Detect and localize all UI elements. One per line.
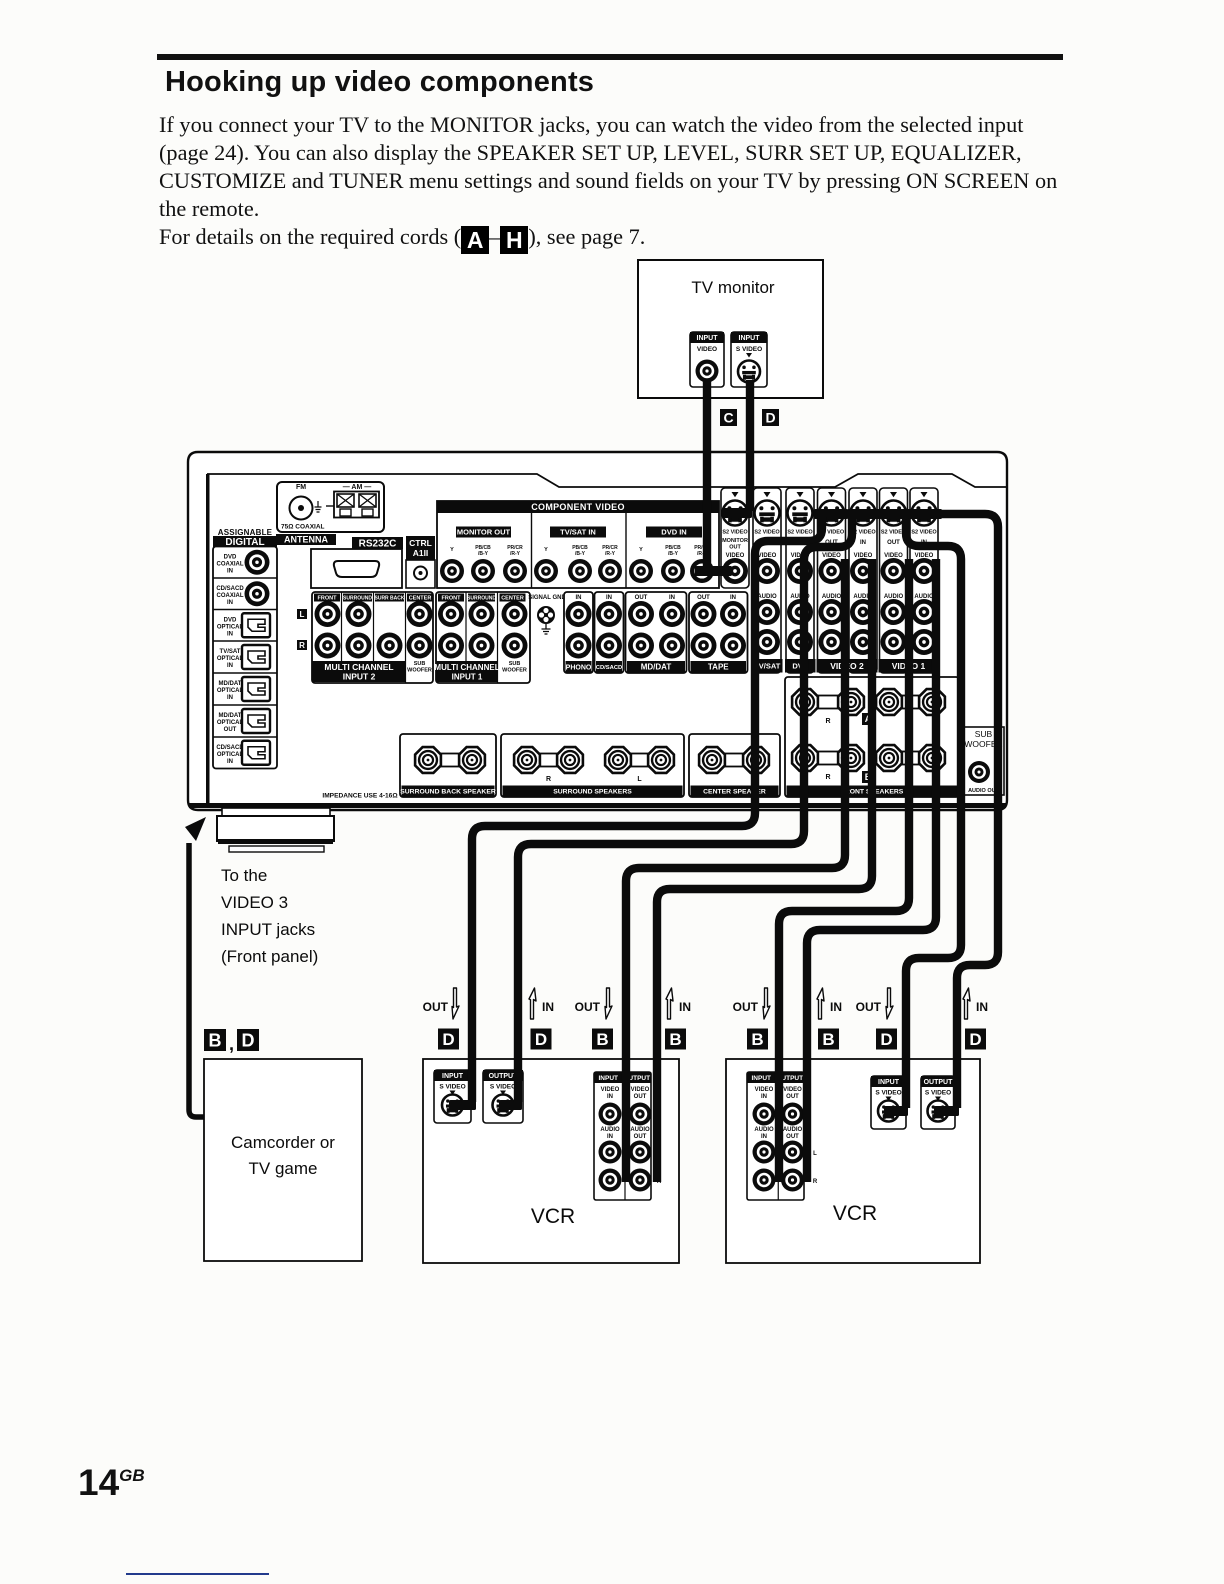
svg-text:CTRL: CTRL: [409, 538, 432, 548]
cable B: VCR1 output to VIDEO 2 audio/video in: [657, 559, 872, 1182]
SURROUND BACK SPEAKER terminals: [400, 734, 496, 797]
label VIDEO 2 strip bar: [817, 659, 878, 673]
svg-text:OPTICAL: OPTICAL: [217, 752, 244, 758]
video strip 2 S2-VIDEO/VIDEO IN: [753, 488, 781, 673]
svg-text:B: B: [209, 1030, 222, 1050]
digital input column box: [213, 547, 277, 769]
svg-text:MD/DAT: MD/DAT: [219, 713, 242, 719]
svg-text:IN: IN: [976, 1000, 988, 1014]
label B square 3: [592, 1029, 613, 1050]
svg-text:OUT: OUT: [635, 595, 648, 601]
cable B: VIDEO 1 audio/video out to VCR2 input: [779, 559, 909, 1182]
svg-text:R: R: [825, 774, 830, 781]
svg-text:S2 VIDEO: S2 VIDEO: [787, 530, 813, 536]
receiver inner left fold line: [206, 474, 210, 804]
label L square: [297, 609, 307, 619]
svg-text:OUTPUT: OUTPUT: [489, 1073, 519, 1080]
label D square 8: [965, 1029, 986, 1050]
svg-text:L: L: [813, 1151, 817, 1157]
svg-text:B: B: [751, 1030, 763, 1049]
svg-text:S VIDEO: S VIDEO: [736, 346, 762, 353]
receiver rear panel chassis: [188, 452, 1007, 810]
svg-text:COAXIAL: COAXIAL: [217, 561, 244, 567]
svg-text:CD/SACD: CD/SACD: [216, 745, 244, 751]
svg-text:A1II: A1II: [413, 548, 429, 558]
mci1 L row jacks: [438, 601, 464, 627]
svg-text:OUT: OUT: [786, 1094, 799, 1100]
VCR1 S VIDEO INPUT module: [434, 1070, 471, 1123]
multi channel input 2 box: [312, 592, 433, 683]
svg-text:Camcorder or: Camcorder or: [231, 1133, 335, 1152]
cable D: VCR1 s-video output to S2 VIDEO 2 in: [499, 1100, 522, 1110]
jack TV/SAT OPTICAL IN: [213, 640, 277, 642]
svg-text:TV/SAT: TV/SAT: [220, 649, 241, 655]
footer blue line: [126, 1573, 269, 1576]
MD/DAT jacks box: [626, 592, 687, 673]
svg-text:WOOFER: WOOFER: [407, 668, 432, 674]
label R square: [297, 640, 307, 650]
svg-text:IN: IN: [227, 631, 233, 637]
svg-text:INPUT 2: INPUT 2: [343, 672, 376, 682]
antenna box: [277, 482, 384, 532]
svg-text:DVD: DVD: [224, 554, 237, 560]
svg-text:AUDIO: AUDIO: [783, 1127, 803, 1133]
svg-text:D: D: [765, 410, 775, 426]
svg-text:FM: FM: [296, 484, 306, 491]
svg-text:OUT: OUT: [733, 1000, 759, 1014]
svg-text:IN: IN: [679, 1000, 691, 1014]
svg-text:OUT: OUT: [786, 1134, 799, 1140]
mci2 R row jacks: [315, 633, 341, 659]
svg-text:D: D: [880, 1030, 892, 1049]
svg-text:D: D: [969, 1030, 981, 1049]
svg-text:WOOFER: WOOFER: [502, 668, 527, 674]
svg-text:MONITOR: MONITOR: [722, 538, 748, 544]
video strip 7 S2-VIDEO/VIDEO IN: [910, 488, 938, 673]
label D square 1: [438, 1029, 459, 1050]
svg-text:B: B: [669, 1030, 681, 1049]
svg-text:IN: IN: [542, 1000, 554, 1014]
svg-text:RS232C: RS232C: [359, 539, 397, 550]
svg-text:OPTICAL: OPTICAL: [217, 688, 244, 694]
component video box: [437, 501, 719, 588]
svg-text:R: R: [813, 1179, 818, 1185]
label B square 5: [747, 1029, 768, 1050]
VCR 2 box: [726, 1059, 980, 1263]
svg-text:IN: IN: [761, 1134, 767, 1140]
label ANTENNA bar: [276, 534, 336, 545]
svg-text:VIDEO: VIDEO: [631, 1087, 650, 1093]
label B square 6: [818, 1029, 839, 1050]
label DIGITAL bar: [213, 536, 277, 547]
svg-text:/R-Y: /R-Y: [510, 551, 521, 557]
svg-text:MULTI CHANNEL: MULTI CHANNEL: [324, 662, 393, 672]
svg-text:S VIDEO: S VIDEO: [439, 1084, 465, 1091]
svg-text:FRONT: FRONT: [442, 595, 462, 601]
svg-text:OUT: OUT: [634, 1134, 647, 1140]
svg-text:IN: IN: [227, 759, 233, 765]
svg-text:AUDIO: AUDIO: [600, 1127, 620, 1133]
svg-text:S VIDEO: S VIDEO: [490, 1084, 516, 1091]
svg-text:(Front panel): (Front panel): [221, 947, 318, 966]
label COMPONENT VIDEO bar: [437, 501, 719, 513]
svg-text:CENTER: CENTER: [409, 595, 432, 601]
svg-text:D: D: [442, 1030, 454, 1049]
svg-text:IMPEDANCE USE 4-16Ω: IMPEDANCE USE 4-16Ω: [322, 793, 398, 800]
AM antenna terminals: [334, 492, 379, 518]
svg-text:SURROUND: SURROUND: [343, 595, 372, 601]
svg-text:VCR: VCR: [531, 1205, 575, 1228]
mci2 L row jacks: [315, 601, 341, 627]
svg-text:B: B: [822, 1030, 834, 1049]
svg-text:VIDEO 3: VIDEO 3: [221, 893, 288, 912]
svg-text:S VIDEO: S VIDEO: [875, 1090, 901, 1097]
svg-text:IN: IN: [227, 663, 233, 669]
svg-text:VIDEO: VIDEO: [697, 346, 717, 353]
svg-text:/B-Y: /B-Y: [478, 551, 489, 557]
svg-text:OUT: OUT: [575, 1000, 601, 1014]
TAPE jacks box: [689, 592, 748, 673]
svg-text:Y: Y: [544, 547, 548, 553]
VCR2 S VIDEO INPUT module: [871, 1076, 906, 1129]
label MULTI CHANNEL INPUT 2: [312, 661, 406, 682]
VCR1 VIDEO/AUDIO jack panel: [594, 1072, 651, 1200]
jack MD/DAT OPTICAL IN: [213, 672, 277, 674]
TV S VIDEO INPUT jack module: [731, 332, 767, 387]
label MULTI CHANNEL INPUT 1: [436, 661, 498, 682]
video strip 5 S2-VIDEO/VIDEO IN: [849, 488, 877, 673]
svg-text:IN: IN: [860, 540, 866, 546]
label D square 7: [876, 1029, 897, 1050]
label TV/SAT strip bar: [752, 659, 783, 673]
svg-text:INPUT: INPUT: [878, 1079, 900, 1086]
SURROUND SPEAKERS terminals: [501, 734, 684, 797]
svg-text:SURR BACK: SURR BACK: [375, 595, 405, 601]
svg-text:TAPE: TAPE: [708, 663, 729, 672]
svg-text:CENTER: CENTER: [501, 595, 524, 601]
multi channel input 1 box: [436, 592, 530, 683]
mci2 column headers: [314, 594, 340, 602]
cable B: VIDEO 2 audio/video out to VCR1 input: [626, 559, 845, 1182]
video strip 3 S2-VIDEO/VIDEO IN: [786, 488, 814, 673]
svg-text:D: D: [242, 1030, 255, 1050]
FRONT SPEAKERS terminals: [785, 677, 959, 797]
cable D: S2 VIDEO 2 out to VCR1 s-video input: [814, 509, 848, 519]
svg-text:OUTPUT: OUTPUT: [924, 1079, 954, 1086]
svg-text:IN: IN: [576, 595, 582, 601]
mci2 dividers: [341, 592, 343, 661]
svg-text:SURROUND: SURROUND: [467, 595, 496, 601]
mci1 dividers: [465, 592, 467, 661]
svg-text:PHONO: PHONO: [566, 664, 592, 671]
label RS232C bar: [352, 537, 403, 549]
antenna ground symbol: [315, 501, 322, 512]
svg-text:S2 VIDEO: S2 VIDEO: [911, 530, 937, 536]
VCR 1 box: [423, 1059, 679, 1263]
svg-text:Y: Y: [450, 547, 454, 553]
label VIDEO 1 strip bar: [879, 659, 939, 673]
cable D: VCR2 s-video output to S2 VIDEO 1 in: [908, 509, 942, 519]
svg-text:INPUT 1: INPUT 1: [452, 673, 483, 682]
label CTRL A1II bar: [406, 536, 435, 560]
svg-text:OUT: OUT: [729, 545, 741, 551]
svg-text:B: B: [596, 1030, 608, 1049]
svg-text:Y: Y: [639, 547, 643, 553]
svg-text:TV monitor: TV monitor: [691, 278, 774, 297]
svg-text:MD/DAT: MD/DAT: [641, 663, 672, 672]
svg-text:DVD IN: DVD IN: [661, 528, 686, 537]
svg-text:ANTENNA: ANTENNA: [284, 535, 328, 545]
label DVD IN: [646, 527, 702, 538]
svg-text:IN: IN: [227, 600, 233, 606]
VCR2 VIDEO/AUDIO jack panel: [747, 1072, 804, 1200]
svg-text:VCR: VCR: [833, 1202, 877, 1225]
video strip 4 S2-VIDEO/VIDEO OUT: [818, 488, 846, 673]
svg-text:INPUT jacks: INPUT jacks: [221, 920, 315, 939]
svg-text:DVD: DVD: [224, 617, 237, 623]
VCR1 S VIDEO OUTPUT module: [483, 1070, 523, 1123]
svg-text:TV game: TV game: [249, 1159, 318, 1178]
svg-text:OPTICAL: OPTICAL: [217, 720, 244, 726]
svg-text:INPUT: INPUT: [599, 1075, 619, 1082]
VCR2 S VIDEO OUTPUT module: [921, 1076, 955, 1129]
svg-text:/B-Y: /B-Y: [668, 551, 679, 557]
svg-text:D: D: [535, 1030, 547, 1049]
component video dividers: [531, 513, 533, 588]
svg-text:INPUT: INPUT: [752, 1075, 772, 1082]
label DVD strip bar: [785, 659, 816, 673]
svg-text:AUDIO: AUDIO: [630, 1127, 650, 1133]
CENTER SPEAKER terminals: [689, 734, 780, 797]
label MONITOR OUT: [456, 527, 511, 538]
svg-text:SUB: SUB: [975, 729, 993, 739]
page heading: [165, 66, 594, 99]
svg-text:SURROUND SPEAKERS: SURROUND SPEAKERS: [553, 788, 632, 795]
page number 14 GB: [78, 1462, 145, 1504]
svg-text:FRONT: FRONT: [318, 595, 338, 601]
cable C: TV video input to MONITOR video out: [703, 380, 711, 569]
svg-text:COAXIAL: COAXIAL: [217, 593, 244, 599]
jack MD/DAT OPTICAL OUT: [213, 704, 277, 706]
svg-text:SUB: SUB: [414, 661, 426, 667]
svg-text:MONITOR OUT: MONITOR OUT: [457, 528, 511, 537]
TV VIDEO INPUT jack module: [690, 332, 724, 387]
svg-text:IN: IN: [227, 695, 233, 701]
jack DVD OPTICAL IN: [213, 609, 277, 611]
svg-text:OPTICAL: OPTICAL: [217, 656, 244, 662]
mci1 R row jacks: [438, 633, 464, 659]
svg-text:R: R: [546, 776, 551, 783]
svg-text:MD/DAT: MD/DAT: [219, 681, 242, 687]
mci1 column headers: [438, 594, 464, 602]
svg-text:IN: IN: [830, 1000, 842, 1014]
cable D: TV s-video input to S2 MONITOR out: [746, 380, 754, 511]
camcorder or TV game box: [204, 1059, 362, 1261]
arrow to VIDEO3 front input: [189, 843, 212, 1117]
svg-text:OPTICAL: OPTICAL: [217, 624, 244, 630]
svg-text:COMPONENT VIDEO: COMPONENT VIDEO: [531, 502, 625, 512]
signal gnd ground symbol: [542, 624, 551, 634]
svg-text:OUT: OUT: [887, 540, 900, 546]
front panel VIDEO3 protrusion: [222, 808, 330, 816]
svg-text:ASSIGNABLE: ASSIGNABLE: [218, 528, 273, 537]
top rule: [157, 54, 1063, 60]
FM 75ohm coaxial antenna jack: [290, 497, 313, 520]
svg-text:INPUT: INPUT: [739, 335, 761, 342]
svg-text:L: L: [637, 776, 642, 783]
svg-text:OUT: OUT: [697, 595, 710, 601]
svg-text:CD/SACD: CD/SACD: [216, 586, 244, 592]
TV monitor box: [638, 260, 823, 398]
svg-text:AUDIO: AUDIO: [754, 1127, 774, 1133]
svg-text:SUB: SUB: [509, 661, 521, 667]
CTRL A1II jack box: [406, 560, 435, 588]
svg-text:IN: IN: [227, 568, 233, 574]
svg-text:IN: IN: [606, 595, 612, 601]
label D square 2: [531, 1029, 552, 1050]
svg-text:C: C: [723, 410, 733, 426]
receiver inner top contour: [207, 474, 1006, 487]
svg-text:S2 VIDEO: S2 VIDEO: [722, 530, 748, 536]
label B,D squares: [204, 1029, 226, 1051]
svg-text:/B-Y: /B-Y: [575, 551, 586, 557]
label TV/SAT IN: [550, 527, 606, 538]
label D square: [762, 409, 779, 426]
svg-text:SURROUND BACK SPEAKER: SURROUND BACK SPEAKER: [400, 788, 496, 795]
svg-text:IN: IN: [730, 595, 736, 601]
svg-text:S VIDEO: S VIDEO: [925, 1090, 951, 1097]
svg-text:R: R: [299, 641, 305, 650]
svg-text:IN: IN: [669, 595, 675, 601]
svg-text:— AM —: — AM —: [343, 484, 372, 491]
signal gnd screw terminal: [537, 606, 555, 624]
receiver bottom thick edge: [189, 803, 1006, 808]
svg-text:OUT: OUT: [423, 1000, 449, 1014]
SUB WOOFER audio out box: [963, 727, 1004, 795]
svg-text:OUT: OUT: [634, 1094, 647, 1100]
cable D: S2 VIDEO 1 out to VCR2 s-video input: [875, 509, 911, 519]
svg-text:To the: To the: [221, 866, 267, 885]
svg-text:L: L: [300, 610, 305, 619]
jack CD/SACD OPTICAL IN: [213, 736, 277, 738]
video strip 6 S2-VIDEO/VIDEO OUT: [880, 488, 908, 673]
svg-text:INPUT: INPUT: [697, 335, 719, 342]
CD/SACD jacks box: [595, 592, 624, 673]
svg-text:VIDEO: VIDEO: [783, 1087, 802, 1093]
body paragraph: [159, 111, 1064, 254]
PHONO jacks box: [564, 592, 593, 673]
svg-text:75Ω COAXIAL: 75Ω COAXIAL: [281, 524, 325, 531]
svg-text:TV/SAT IN: TV/SAT IN: [560, 528, 596, 537]
svg-text:IN: IN: [607, 1134, 613, 1140]
label B square 4: [665, 1029, 686, 1050]
svg-text:SIGNAL GND: SIGNAL GND: [528, 595, 566, 601]
cable B: VCR2 output to VIDEO 1 audio/video in: [807, 559, 936, 1182]
svg-text:IN: IN: [607, 1094, 613, 1100]
svg-text:,: ,: [229, 1034, 234, 1054]
svg-text:OUT: OUT: [856, 1000, 882, 1014]
svg-text:IN: IN: [761, 1094, 767, 1100]
svg-text:OUT: OUT: [224, 727, 237, 733]
jack CD/SACD COAXIAL IN: [213, 577, 277, 579]
svg-text:VIDEO: VIDEO: [755, 1087, 774, 1093]
svg-text:MULTI CHANNEL: MULTI CHANNEL: [434, 663, 499, 672]
svg-text:R: R: [825, 718, 830, 725]
svg-text:INPUT: INPUT: [442, 1073, 464, 1080]
svg-text:S2 VIDEO: S2 VIDEO: [754, 530, 780, 536]
svg-text:VIDEO: VIDEO: [601, 1087, 620, 1093]
svg-text:CD/SACD: CD/SACD: [596, 665, 622, 671]
label C square: [720, 409, 737, 426]
RS232C connector box: [311, 549, 402, 588]
video strip 1 S2-VIDEO/VIDEO MONITOR OUT: [721, 488, 749, 588]
svg-text:/R-Y: /R-Y: [605, 551, 616, 557]
